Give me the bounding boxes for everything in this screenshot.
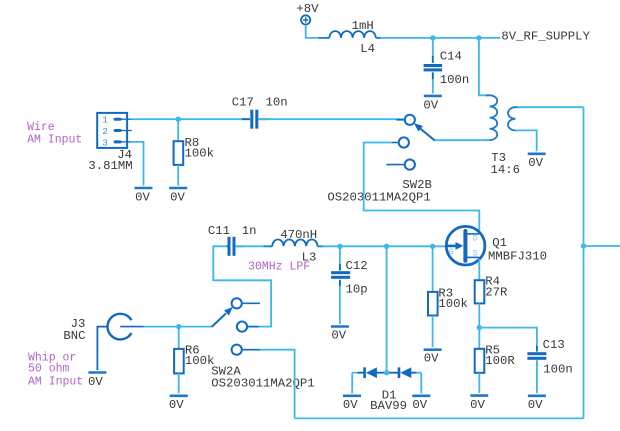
svg-text:10n: 10n — [266, 96, 288, 110]
transformer T3 — [486, 95, 520, 177]
diode D1 (dual BAV99) — [352, 367, 421, 413]
svg-text:C13: C13 — [543, 338, 565, 352]
svg-text:BAV99: BAV99 — [370, 399, 407, 413]
svg-text:3.81MM: 3.81MM — [88, 159, 132, 173]
svg-text:2: 2 — [102, 126, 108, 137]
junction right rail output — [581, 243, 586, 248]
junction R4/R5/C13 — [477, 325, 482, 330]
svg-text:+8V: +8V — [296, 2, 319, 16]
ground 0V below J4 — [135, 188, 153, 205]
junction C14 top — [430, 35, 435, 40]
junction J3/R6 — [176, 324, 181, 329]
connector J3 BNC — [63, 314, 143, 370]
ground 0V below R6 — [169, 396, 188, 412]
svg-text:0V: 0V — [528, 156, 543, 170]
wire T3 primary top feed — [479, 38, 489, 95]
svg-text:100R: 100R — [485, 354, 515, 368]
resistor R4 — [475, 275, 508, 328]
lead L4 left — [319, 37, 330, 39]
svg-text:D: D — [473, 235, 478, 244]
svg-text:50 ohm: 50 ohm — [28, 362, 70, 375]
connector J4 — [88, 113, 132, 173]
svg-text:0V: 0V — [343, 398, 358, 412]
svg-text:OS203011MA2QP1: OS203011MA2QP1 — [327, 191, 430, 205]
svg-text:14:6: 14:6 — [491, 163, 521, 177]
wire C17 to SW2B — [259, 118, 404, 120]
ground 0V below J3 — [88, 373, 106, 389]
svg-text:1n: 1n — [242, 224, 257, 238]
svg-text:C17: C17 — [232, 96, 254, 110]
output stub — [584, 245, 620, 247]
label Wire AM Input — [27, 121, 82, 147]
wire gate line to D1 — [386, 246, 388, 372]
svg-text:100k: 100k — [438, 297, 468, 311]
svg-text:MMBFJ310: MMBFJ310 — [488, 250, 547, 264]
svg-text:OS203011MA2QP1: OS203011MA2QP1 — [211, 376, 314, 390]
label Whip or 50 ohm AM Input — [28, 352, 83, 389]
wire gate line L3 to Q1 — [317, 245, 446, 247]
svg-text:100n: 100n — [440, 73, 470, 87]
ground 0V below R5 — [470, 396, 488, 412]
wire J4 pin3 to ground — [132, 142, 144, 186]
resistor R5 — [475, 328, 516, 393]
ground 0V below C12 — [331, 327, 349, 343]
svg-text:0V: 0V — [170, 191, 185, 205]
ground 0V below C13 — [528, 396, 546, 412]
wire T3 secondary top to right rail — [517, 106, 584, 108]
switch SW2A — [211, 298, 314, 390]
bottom rail — [295, 417, 584, 419]
svg-text:S: S — [473, 249, 478, 258]
svg-text:470nH: 470nH — [280, 228, 317, 242]
lead L3 right — [317, 245, 322, 247]
svg-text:0V: 0V — [412, 398, 427, 412]
svg-text:AM Input: AM Input — [28, 376, 83, 389]
svg-text:0V: 0V — [135, 191, 150, 205]
capacitor C12 — [331, 246, 368, 324]
svg-text:3: 3 — [102, 137, 108, 148]
power flag +8V — [296, 2, 319, 25]
ground 0V below C14 — [423, 96, 441, 113]
svg-text:100n: 100n — [543, 363, 573, 377]
svg-text:100k: 100k — [185, 354, 215, 368]
wire L4 to 8V_RF_SUPPLY — [376, 37, 501, 39]
junction D1 drop — [384, 244, 389, 249]
ground 0V below R8 — [169, 188, 187, 205]
svg-text:C14: C14 — [440, 50, 462, 64]
ground 0V below D1 left — [343, 396, 361, 412]
svg-text:0V: 0V — [423, 99, 438, 113]
svg-text:0V: 0V — [169, 398, 184, 412]
inductor L4 — [329, 19, 375, 56]
svg-text:BNC: BNC — [63, 329, 85, 343]
svg-text:Wire: Wire — [27, 121, 55, 134]
wire C11 left leg to SW2A middle contact — [213, 246, 271, 326]
svg-text:0V: 0V — [528, 398, 543, 412]
svg-text:Q1: Q1 — [492, 236, 507, 250]
svg-text:100k: 100k — [185, 147, 215, 161]
svg-text:0V: 0V — [88, 375, 103, 389]
svg-text:C11: C11 — [208, 224, 230, 238]
svg-text:0V: 0V — [470, 398, 485, 412]
svg-text:27R: 27R — [485, 286, 508, 300]
junction T3 primary drop — [476, 35, 481, 40]
svg-text:0V: 0V — [424, 352, 439, 366]
svg-text:L4: L4 — [360, 42, 375, 56]
svg-text:10p: 10p — [346, 283, 368, 297]
junction C12 — [337, 244, 342, 249]
junction R3 — [430, 244, 435, 249]
svg-text:8V_RF_SUPPLY: 8V_RF_SUPPLY — [501, 29, 590, 43]
wire junction to C13 — [479, 328, 537, 351]
wire Q1 source to R4 — [478, 259, 480, 280]
wire T3 secondary bottom to ground — [515, 130, 536, 151]
ground 0V below R3 — [424, 350, 442, 366]
ground 0V T3 secondary — [528, 154, 546, 170]
capacitor C17 — [232, 96, 288, 129]
switch SW2B — [327, 115, 435, 205]
wire J4 pin1 to C17 — [132, 118, 250, 120]
capacitor C14 — [424, 38, 470, 94]
svg-text:G: G — [449, 248, 454, 257]
junction J4/R8 — [176, 117, 181, 122]
wire T3 primary bottom to SW2B pole — [435, 139, 490, 141]
svg-text:C12: C12 — [346, 259, 368, 273]
resistor R3 — [428, 246, 468, 347]
ground 0V below D1 right — [412, 396, 430, 412]
wire SW2A bottom contact to bottom rail — [260, 350, 295, 419]
svg-text:1: 1 — [102, 115, 108, 126]
transistor Q1 — [446, 226, 547, 265]
inductor L3 — [272, 228, 317, 265]
wire J3 to SW2A pole — [144, 326, 212, 328]
resistor R8 — [174, 119, 214, 185]
capacitor C11 — [208, 224, 257, 256]
right rail — [583, 107, 585, 418]
capacitor C13 — [527, 338, 572, 393]
svg-text:0V: 0V — [331, 329, 346, 343]
wire C11 to L3 — [236, 245, 272, 247]
svg-text:1mH: 1mH — [352, 19, 374, 33]
resistor R6 — [174, 327, 214, 394]
wire SW2B middle contact to Q1 drain — [364, 143, 480, 233]
lead L3 left — [264, 245, 273, 247]
lead L4 right — [376, 37, 381, 39]
svg-text:30MHz LPF: 30MHz LPF — [248, 260, 310, 273]
wire +8V to L4 — [306, 25, 330, 38]
svg-text:AM Input: AM Input — [27, 134, 82, 147]
